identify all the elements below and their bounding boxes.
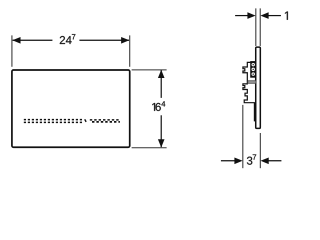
thickness dimension arrow right <box>260 12 268 19</box>
side view bracket outline <box>243 62 256 121</box>
thickness dimension extension line right <box>259 8 261 46</box>
height label superscript 4 <box>161 101 165 106</box>
side view connector block <box>250 61 256 78</box>
depth dimension arrow right <box>261 157 269 164</box>
sensor strip zigzag bottom dots <box>92 121 120 123</box>
height dimension arrow down <box>158 139 165 147</box>
connector pin 1 <box>252 63 255 66</box>
width dimension extension line right <box>129 35 131 66</box>
width dimension extension line left <box>11 35 13 66</box>
width dimension line right part <box>79 39 129 41</box>
connector pin 2 <box>252 68 255 71</box>
thickness dimension extension line left <box>255 8 257 46</box>
depth dimension line left <box>221 160 241 162</box>
depth dimension arrow left <box>234 157 242 164</box>
height dimension arrow up <box>158 70 165 78</box>
width dimension arrow left <box>12 37 20 44</box>
height label 1 <box>152 103 155 111</box>
thickness dimension line left <box>235 15 250 17</box>
width label 24 <box>60 36 72 44</box>
side view plate profile <box>256 47 261 128</box>
thickness label 1 <box>285 12 288 20</box>
side view gray gasket band <box>248 81 256 84</box>
width dimension line left part <box>13 39 53 41</box>
sensor strip zigzag lead tick <box>85 119 86 122</box>
depth dimension extension line left <box>242 105 244 168</box>
height dimension line upper part <box>160 70 162 98</box>
sensor strip left segment row1 <box>24 119 82 121</box>
sensor strip zigzag top dots <box>90 119 119 121</box>
front view plate outline <box>12 70 130 147</box>
depth dimension line right <box>262 160 281 162</box>
height label 6 <box>156 103 161 111</box>
sensor strip left segment row2 <box>24 121 82 123</box>
connector pin 3 <box>252 72 255 75</box>
width dimension arrow right <box>121 37 129 44</box>
height dimension extension line top <box>132 69 167 71</box>
depth dimension extension line right <box>259 133 261 168</box>
depth label superscript 7 <box>253 154 256 159</box>
height dimension line lower part <box>160 115 162 147</box>
thickness dimension line right <box>265 15 281 17</box>
height dimension extension line bottom <box>132 147 167 149</box>
thickness dimension arrow left <box>247 12 255 19</box>
depth label 3 <box>247 157 252 165</box>
width label superscript 7 <box>72 34 75 39</box>
